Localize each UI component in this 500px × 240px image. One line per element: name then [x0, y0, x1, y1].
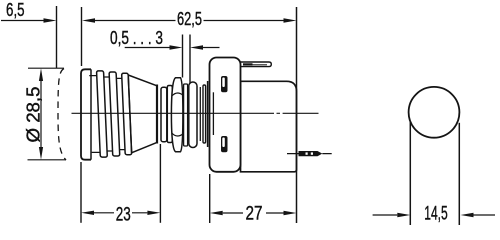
knob cap	[81, 69, 91, 159]
diameter 28,5 top tick	[28, 67, 64, 69]
housing inner line	[212, 92, 214, 135]
washer stack ring	[203, 85, 206, 143]
lower terminal blade	[299, 151, 323, 156]
washer A	[161, 87, 167, 141]
extension line 62,5 right / body edge	[296, 7, 298, 223]
arrow dia up	[39, 68, 43, 81]
svg-text:Ø 28,5: Ø 28,5	[24, 87, 44, 143]
extension line knob face top	[81, 7, 83, 66]
diameter 28,5 dimension line	[40, 80, 42, 148]
knob cone bottom edge	[132, 142, 158, 152]
sleeve B	[167, 86, 172, 143]
mounting hole circle	[409, 87, 460, 138]
arrow 0,5-3 right tip	[170, 45, 183, 49]
arrow dia down	[39, 147, 43, 160]
extension line pressed-position	[56, 6, 58, 68]
knob cap right edge	[90, 69, 92, 159]
dimension 6,5 line	[1, 20, 44, 22]
knob cone front edge	[128, 75, 131, 154]
washer stack line 2	[207, 81, 209, 147]
lower terminal notches	[306, 152, 308, 154]
knob rib 3	[122, 73, 132, 155]
knob rear face	[156, 85, 158, 144]
flange D	[189, 82, 197, 148]
front housing	[210, 58, 241, 172]
dimension 23	[80, 162, 82, 223]
dimension 0,5...3 line	[125, 47, 220, 49]
svg-text:14,5: 14,5	[424, 203, 448, 224]
nut facet lines	[172, 93, 183, 136]
extension line nut face	[182, 35, 184, 78]
knob rib 2	[109, 72, 120, 156]
knob groove 3	[116, 78, 125, 149]
arrow 62,5 right	[284, 18, 297, 22]
arrow 0,5-3 left tip	[190, 45, 203, 49]
svg-text:6,5: 6,5	[6, 0, 25, 20]
dimension 62,5 line	[94, 20, 284, 22]
svg-text:0,5 . . . 3: 0,5 . . . 3	[110, 28, 163, 48]
extension line flange face	[189, 35, 191, 84]
hex nut C	[171, 78, 183, 152]
washer stack line 1	[199, 87, 201, 141]
knob groove 2	[104, 77, 113, 151]
arrow 6,5 right tip	[44, 18, 57, 22]
lower terminal lead	[287, 153, 332, 155]
rear body	[241, 81, 297, 172]
knob groove 1	[88, 76, 100, 153]
arrow 62,5 left	[82, 18, 95, 22]
svg-text:23: 23	[116, 205, 131, 226]
svg-text:27: 27	[246, 204, 263, 225]
upper rivet slot	[221, 76, 228, 92]
dimension 14,5	[373, 214, 495, 216]
hole flat right	[458, 123, 460, 225]
dimension 27	[209, 174, 211, 223]
knob cone top edge	[128, 75, 157, 86]
threaded neck	[184, 84, 188, 146]
hole flat left	[409, 122, 411, 226]
diameter 28,5 bottom tick	[28, 159, 67, 161]
knob rib group (slightly skewed as in scan)	[88, 71, 132, 157]
dashed pressed knob face	[58, 69, 66, 161]
centerline	[72, 112, 319, 114]
lower rivet slot	[221, 136, 228, 152]
upper terminal	[241, 62, 272, 67]
knob rib 1	[97, 71, 108, 157]
svg-text:62,5: 62,5	[177, 9, 202, 29]
upper terminal mark	[243, 63, 253, 65]
